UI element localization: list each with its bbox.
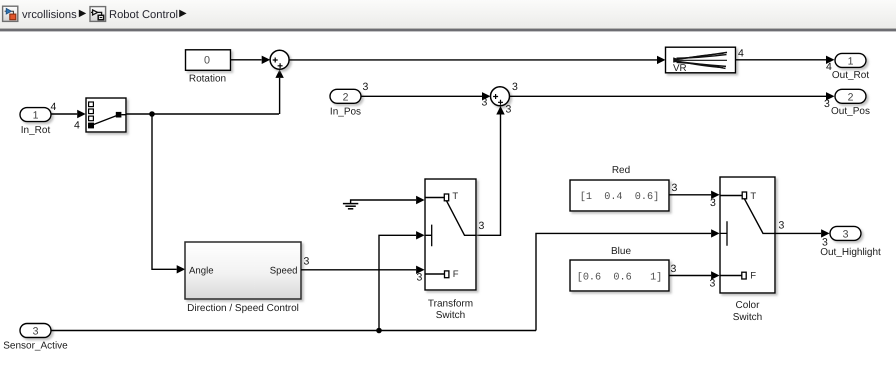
- svg-text:2: 2: [848, 91, 854, 103]
- svg-text:3: 3: [304, 256, 310, 268]
- svg-text:Speed: Speed: [270, 266, 298, 277]
- wire sum1 to VR: [289, 56, 665, 64]
- svg-text:Out_Highlight: Out_Highlight: [820, 247, 881, 258]
- svg-text:3: 3: [417, 271, 423, 283]
- wire Blue to color switch F input: [669, 263, 720, 290]
- inport Sensor_Active: [3, 324, 68, 352]
- svg-text:3: 3: [479, 220, 485, 232]
- svg-text:2: 2: [343, 91, 349, 103]
- wire up to color switch control input: [536, 229, 720, 330]
- wire branch up to transform switch control input: [379, 231, 425, 330]
- outport Out_Rot: [832, 53, 869, 81]
- sum U2: [491, 87, 510, 106]
- constant Blue: [570, 246, 669, 291]
- wire In_Rot to Selector: [51, 101, 86, 132]
- selector block: [86, 98, 126, 132]
- junction node sensor branch: [376, 328, 382, 334]
- junction node: [149, 111, 155, 117]
- svg-text:In_Rot: In_Rot: [21, 125, 51, 136]
- svg-text:Robot Control: Robot Control: [109, 9, 178, 21]
- svg-text:3: 3: [710, 278, 716, 290]
- svg-text:3: 3: [512, 81, 518, 93]
- svg-text:3: 3: [671, 263, 677, 275]
- svg-text:T: T: [750, 191, 756, 202]
- svg-text:4: 4: [738, 48, 744, 60]
- transform switch block: [425, 179, 476, 321]
- svg-text:3: 3: [672, 182, 678, 194]
- wire branch down to Angle input: [152, 114, 185, 274]
- wire sum2 to Out_Pos: [510, 81, 835, 110]
- wire Sensor_Active main run: [51, 330, 536, 332]
- svg-text:3: 3: [363, 81, 369, 93]
- wire selector output to sum vertical: [126, 113, 279, 115]
- svg-text:Switch: Switch: [733, 312, 762, 323]
- svg-text:Out_Pos: Out_Pos: [831, 106, 870, 117]
- outport Out_Highlight: [820, 226, 881, 258]
- sum U1: [270, 50, 289, 69]
- arrow into transform switch T input: [416, 196, 425, 204]
- svg-text:3: 3: [482, 97, 488, 109]
- svg-text:In_Pos: In_Pos: [330, 106, 361, 117]
- svg-text:F: F: [453, 269, 459, 280]
- svg-text:4: 4: [51, 101, 57, 113]
- breadcrumb arrow 1: [79, 10, 86, 18]
- inport In_Pos: [330, 89, 361, 117]
- svg-text:Rotation: Rotation: [189, 73, 226, 84]
- svg-text:0: 0: [204, 55, 210, 67]
- ground symbol: [343, 200, 416, 209]
- svg-text:vrcollisions: vrcollisions: [22, 9, 77, 21]
- svg-text:Color: Color: [736, 300, 761, 311]
- wire In_Pos to sum2: [361, 81, 491, 109]
- svg-text:3: 3: [779, 220, 785, 232]
- svg-text:Sensor_Active: Sensor_Active: [3, 341, 68, 352]
- svg-text:[0.6 0.6 1]: [0.6 0.6 1]: [577, 271, 663, 283]
- svg-text:F: F: [750, 271, 756, 282]
- breadcrumb arrow 2: [179, 10, 186, 18]
- wire color switch output to Out_Highlight: [775, 220, 830, 249]
- wire up into sum1 bottom: [275, 69, 283, 114]
- inport In_Rot: [20, 108, 51, 136]
- wire Red to color switch T input: [669, 182, 720, 209]
- breadcrumb bar: [0, 0, 896, 31]
- svg-text:Blue: Blue: [611, 246, 631, 257]
- svg-text:VR: VR: [673, 63, 687, 74]
- svg-text:3: 3: [843, 228, 849, 240]
- wire Rotation to sum1: [231, 56, 271, 64]
- model icon (vrcollisions): [3, 6, 18, 21]
- svg-text:T: T: [452, 191, 458, 202]
- constant Red: [570, 165, 669, 211]
- svg-text:3: 3: [506, 104, 512, 116]
- svg-text:3: 3: [33, 326, 39, 338]
- svg-text:1: 1: [848, 55, 854, 67]
- constant Rotation: [186, 50, 231, 85]
- svg-text:1: 1: [33, 110, 39, 122]
- wire transform switch output up to sum2 bottom: [477, 104, 512, 236]
- svg-text:Red: Red: [612, 165, 630, 176]
- subsystem Direction / Speed Control: [185, 242, 301, 314]
- svg-text:Angle: Angle: [189, 266, 214, 277]
- svg-text:[1 0.4 0.6]: [1 0.4 0.6]: [580, 191, 659, 203]
- svg-text:3: 3: [824, 98, 830, 110]
- outport Out_Pos: [831, 89, 870, 117]
- color switch block: [720, 177, 775, 323]
- svg-text:4: 4: [74, 119, 80, 131]
- svg-text:Out_Rot: Out_Rot: [832, 70, 869, 81]
- svg-text:Switch: Switch: [436, 310, 465, 321]
- svg-text:3: 3: [710, 197, 716, 209]
- wire Speed to transform switch F input: [301, 256, 425, 284]
- svg-text:Direction / Speed Control: Direction / Speed Control: [187, 303, 299, 314]
- svg-text:Transform: Transform: [428, 298, 473, 309]
- wire VR to Out_Rot: [736, 48, 835, 73]
- VR sink block: [666, 47, 736, 74]
- subsystem icon (Robot Control): [90, 7, 106, 22]
